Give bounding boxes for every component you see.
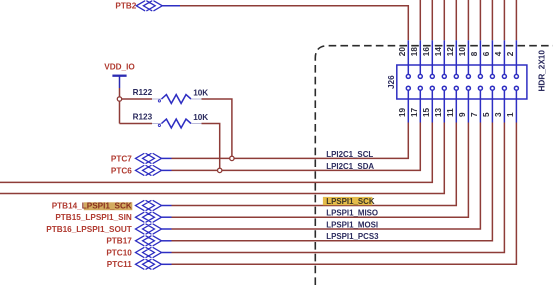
pin stub bottom 11 [455,88,457,122]
pin circle 15 [430,86,434,90]
svg-text:20: 20 [398,47,407,57]
wire PTC7 to pin 19 [172,123,409,159]
pin circle 2 [514,74,518,78]
wire (off-page left) to pin 13 [0,123,444,194]
dashed page boundary [315,46,553,285]
wire top vertical to pin 8 [479,0,481,40]
wire PTB14_LPSPI1_SCK to pin 11 [172,123,457,206]
pin circle 4 [502,74,506,78]
svg-text:11: 11 [446,108,455,117]
wire stub PTC10 [161,252,171,254]
wire stub PTB16_LPSPI1_SOUT [161,228,171,230]
wire top vertical to pin 4 [503,0,505,40]
off-page connector symbol PTC6 [136,166,162,176]
off-page connector symbol PTB17 [136,236,162,246]
svg-text:LPSPI1_MISO: LPSPI1_MISO [326,209,378,218]
wire top vertical to pin 2 [515,0,517,40]
junction SDA [218,168,222,172]
svg-text:VDD_IO: VDD_IO [104,63,135,72]
pin circle 13 [442,86,446,90]
svg-text:12: 12 [446,47,455,57]
wire PTC6 to pin 17 [172,123,421,171]
pin circle 19 [406,86,410,90]
off-page connector symbol PTB15_LPSPI1_SIN [136,212,162,222]
svg-text:13: 13 [434,107,443,117]
svg-text:18: 18 [410,47,419,57]
pin stub top 12 [455,40,457,76]
pin stub bottom 1 [515,88,517,122]
pin stub bottom 19 [407,88,409,122]
svg-text:6: 6 [482,51,491,56]
svg-text:LPSPI1_SCK: LPSPI1_SCK [326,197,375,206]
pin stub top 6 [491,40,493,76]
svg-text:5: 5 [482,112,491,117]
svg-text:PTC6: PTC6 [111,166,132,175]
pin circle 16 [430,74,434,78]
wire top vertical to pin 12 [455,0,457,40]
pin stub bottom 13 [443,88,445,122]
svg-text:10: 10 [458,47,467,57]
pin circle 6 [490,74,494,78]
pin stub top 14 [443,40,445,76]
pin circle 20 [406,74,410,78]
svg-text:PTB2: PTB2 [115,2,136,11]
svg-text:LPI2C1_SDA: LPI2C1_SDA [326,162,374,171]
svg-text:16: 16 [422,47,431,57]
wire stub PTB14_LPSPI1_SCK [161,205,171,207]
pin circle 11 [454,86,458,90]
svg-text:PTB14_LPSPI1_SCK: PTB14_LPSPI1_SCK [52,201,132,210]
junction SCL [230,156,234,160]
pin circle 9 [466,86,470,90]
pin circle 3 [502,86,506,90]
pin circle 10 [466,74,470,78]
svg-text:PTC10: PTC10 [106,248,132,257]
wire VDD vertical [119,88,121,124]
wire stub PTC7 [161,157,171,159]
svg-text:17: 17 [410,107,419,117]
svg-text:J26: J26 [387,75,396,89]
svg-text:LPSPI1_MOSI: LPSPI1_MOSI [326,220,378,229]
svg-text:PTC11: PTC11 [107,260,132,269]
svg-text:10K: 10K [193,88,208,97]
pin stub bottom 7 [479,88,481,122]
wire stub PTB17 [161,240,171,242]
pin circle 5 [490,86,494,90]
wire stub PTC6 [161,169,171,171]
pin stub bottom 5 [491,88,493,122]
wire top vertical to pin 16 [431,0,433,40]
pin circle 18 [418,74,422,78]
wire top vertical to pin 14 [443,0,445,40]
wire stub PTC11 [161,263,171,265]
off-page connector symbol PTC10 [136,248,162,258]
svg-text:PTC7: PTC7 [111,154,132,163]
wire top vertical to pin 18 [419,0,421,40]
wire PTB15_LPSPI1_SIN to pin 9 [172,123,469,218]
wire PTB16_LPSPI1_SOUT to pin 7 [172,123,481,230]
pin stub top 18 [419,40,421,76]
svg-text:4: 4 [494,51,503,56]
svg-text:PTB17: PTB17 [106,237,132,246]
pin circle 14 [442,74,446,78]
off-page connector symbol PTC11 [136,259,162,269]
wire VDD corner to R123 [120,123,153,125]
pin circle 8 [478,74,482,78]
wire top vertical to pin 10 [467,0,469,40]
pin circle 12 [454,74,458,78]
wire (off-page left) to pin 15 [0,123,432,183]
off-page connector symbol PTC7 [136,154,162,164]
svg-text:15: 15 [422,107,431,117]
wire R122 to SCL net [202,99,232,158]
svg-text:R123: R123 [133,113,153,122]
wire PTB2 stub [162,5,180,7]
pin stub top 2 [515,40,517,76]
pin stub top 8 [479,40,481,76]
off-page connector symbol PTB16_LPSPI1_SOUT [136,224,162,234]
wire top vertical to pin 6 [491,0,493,40]
off-page connector symbol PTB2 [136,1,162,11]
highlight PTB14 label [84,202,133,210]
highlight LPSPI1_SCK net label [323,197,372,205]
svg-text:10K: 10K [193,113,208,122]
VDD junction [117,97,121,101]
off-page connector symbol PTB14_LPSPI1_SCK [136,201,162,211]
pin stub bottom 3 [503,88,505,122]
pin stub top 16 [431,40,433,76]
wire PTC11 to pin 1 [172,123,517,265]
pin stub top 20 [407,40,409,76]
connector J26 HDR_2X10 [397,65,527,99]
wire PTB17 to pin 5 [172,123,493,241]
pin circle 17 [418,86,422,90]
svg-text:HDR_2X10: HDR_2X10 [538,50,547,92]
wire PTB2 to pin 20 [180,6,408,41]
svg-text:LPI2C1_SCL: LPI2C1_SCL [326,150,373,159]
wire stub PTB15_LPSPI1_SIN [161,216,171,218]
wire VDD to R122 [120,98,153,100]
svg-text:3: 3 [494,112,503,117]
svg-text:1: 1 [506,112,515,117]
pin circle 1 [514,86,518,90]
svg-text:PTB15_LPSPI1_SIN: PTB15_LPSPI1_SIN [55,213,132,222]
svg-text:19: 19 [398,107,407,117]
wire R123 to SDA net [202,124,220,171]
svg-text:2: 2 [506,51,515,56]
wire PTC10 to pin 3 [172,123,505,253]
svg-text:PTB16_LPSPI1_SOUT: PTB16_LPSPI1_SOUT [46,225,132,234]
pin stub bottom 17 [419,88,421,122]
svg-text:7: 7 [470,112,479,117]
pin circle 7 [478,86,482,90]
svg-text:R122: R122 [133,88,153,97]
pin stub bottom 15 [431,88,433,122]
svg-text:LPSPI1_PCS3: LPSPI1_PCS3 [326,232,379,241]
svg-text:8: 8 [470,51,479,56]
pin stub bottom 9 [467,88,469,122]
pin stub top 10 [467,40,469,76]
svg-text:14: 14 [434,47,443,57]
pin stub top 4 [503,40,505,76]
svg-text:9: 9 [458,112,467,117]
